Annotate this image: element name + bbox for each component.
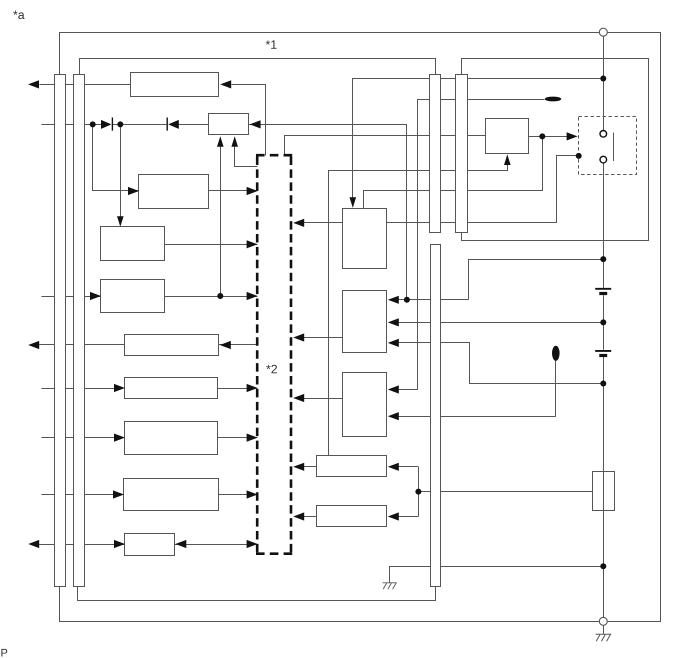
arrow D to *2 xyxy=(247,240,258,248)
label *2 xyxy=(266,365,277,374)
arrow diode box pin2 up xyxy=(231,136,238,147)
wire *2 to diode box pin2 xyxy=(235,147,258,167)
arrow into box K pin2 xyxy=(388,412,399,420)
arrow E to *2 xyxy=(247,292,258,300)
ground symbol bottom xyxy=(596,634,601,641)
wire power rail mid segment xyxy=(603,163,605,288)
node rail y566 xyxy=(600,563,606,569)
wire box B output to *2 xyxy=(304,337,342,339)
box L xyxy=(317,456,387,477)
wire power rail to ground xyxy=(603,625,605,633)
arrow B to *2 xyxy=(293,333,304,341)
node diode row 1 xyxy=(90,121,96,127)
arrow into B1 right xyxy=(220,80,231,88)
arrow M to *2 xyxy=(293,512,304,520)
wire sensor row y99 and down to box K xyxy=(399,100,545,390)
wire diode row to corner and down to node xyxy=(179,125,407,300)
arrow into box J left xyxy=(114,540,125,548)
box B xyxy=(343,291,387,353)
sensor ellipse 1 xyxy=(545,97,561,102)
wire feedback from *2 to B1 xyxy=(232,85,266,156)
arrow into box C xyxy=(128,187,139,195)
terminal circle top xyxy=(599,28,607,36)
arrow into box B pin2 xyxy=(388,318,399,326)
arrow J to *2 xyxy=(247,540,258,548)
connector bus bar 2 xyxy=(74,75,85,587)
resistor R1 xyxy=(593,472,615,511)
wire box I output to *2 xyxy=(218,494,257,496)
label *1 xyxy=(266,40,277,48)
box G xyxy=(125,378,218,399)
arrow into box J right xyxy=(175,540,186,548)
dashed module *2 xyxy=(256,157,259,553)
wire *2 to box F xyxy=(219,344,257,346)
battery 1 short plate xyxy=(599,292,607,295)
box diode logic block xyxy=(209,114,249,135)
node rail y259 xyxy=(600,256,606,262)
box H xyxy=(125,422,218,455)
box I xyxy=(124,479,219,511)
node bracket L-M xyxy=(415,489,421,495)
battery 2 short plate xyxy=(599,354,607,357)
wire sensor2 into box K xyxy=(398,416,555,418)
wire into box M xyxy=(398,516,418,518)
wire control box to switch xyxy=(529,136,568,138)
node rail y383 xyxy=(600,381,606,387)
arrow into box A top xyxy=(350,197,357,208)
label *a xyxy=(13,11,24,20)
arrow K to *2 xyxy=(293,394,304,402)
box A xyxy=(343,209,387,269)
node rail y78 xyxy=(600,76,606,82)
wire box E output to *2 xyxy=(165,296,257,298)
box C xyxy=(139,175,209,209)
terminal circle bottom xyxy=(599,617,607,625)
wire box A output to *2 xyxy=(304,222,342,224)
wire bracket L-M xyxy=(418,467,420,517)
arrow into box K pin1 xyxy=(388,385,399,393)
arrow out left row84 xyxy=(28,80,39,88)
wire power rail upper segment xyxy=(603,36,605,130)
wire box E input stub xyxy=(41,296,100,298)
wire box F output left xyxy=(39,344,125,346)
arrow into box D top xyxy=(117,216,124,227)
module *1 boundary bottom xyxy=(78,587,436,601)
wire sensor2 drop xyxy=(555,361,557,417)
wire row output B1 xyxy=(39,84,131,86)
wire box L output to *2 xyxy=(304,466,317,468)
node under diode line xyxy=(404,297,410,303)
module *1 boundary top xyxy=(80,59,436,75)
connector bus bar 5 xyxy=(431,245,441,587)
sub-module box top right xyxy=(462,59,649,241)
wire box H input stub xyxy=(41,437,114,439)
switch contact circle lower xyxy=(600,156,607,163)
node control output xyxy=(539,133,545,139)
wire power rail between batteries xyxy=(603,295,605,350)
box K xyxy=(343,373,387,437)
wire power rail lower segment xyxy=(603,357,605,617)
wire row into box B pin2 xyxy=(398,322,603,324)
outer boundary frame xyxy=(60,33,661,622)
wire row y190 box A top to node under switch xyxy=(364,137,543,209)
wire diode row stub xyxy=(41,124,101,126)
wire box C output to *2 xyxy=(208,190,257,192)
arrow *2 into box F right xyxy=(220,341,231,349)
wire bracket node to resistor xyxy=(418,491,592,493)
box E xyxy=(101,280,165,313)
box F xyxy=(125,335,219,356)
arrow into switch box xyxy=(567,132,578,140)
arrow into box B pin1 xyxy=(388,296,399,304)
switch contact circle upper xyxy=(600,131,607,138)
wire *2 to control box xyxy=(285,136,486,156)
switch blade bar xyxy=(613,133,615,162)
wire box H output to *2 xyxy=(218,437,258,439)
wire box I input stub xyxy=(41,494,113,496)
wire row into box B pin3 xyxy=(399,343,604,384)
arrow H to *2 xyxy=(247,434,258,442)
wire row y171 to control box and box L xyxy=(329,165,508,456)
arrow into control box bottom xyxy=(504,154,511,165)
wire box J to *2 xyxy=(174,544,257,546)
box control (relay driver) xyxy=(486,119,529,154)
wire box A output to switch node xyxy=(387,156,579,223)
arrow diode box pin1 up xyxy=(217,136,224,147)
dashed switch box xyxy=(579,117,637,175)
wire ground row y566 xyxy=(390,567,604,583)
arrow out left row544 xyxy=(28,540,39,548)
connector bus bar 3 xyxy=(430,75,441,233)
node box E output xyxy=(217,293,223,299)
wire box M output to *2 xyxy=(304,516,317,518)
connector bus bar 4 xyxy=(456,75,468,233)
arrow L to *2 xyxy=(293,463,304,471)
arrow into box B pin3 xyxy=(388,339,399,347)
sensor ellipse 2 xyxy=(552,346,560,361)
arrow out left row345 xyxy=(28,341,39,349)
arrow into diode box right xyxy=(250,120,261,128)
connector bus bar 1 xyxy=(55,75,66,587)
wire node to box C input xyxy=(93,125,139,191)
label P xyxy=(1,649,7,657)
wire rail row y78 to box A arrow xyxy=(353,79,604,199)
wire into box L xyxy=(398,466,418,468)
diode D1 xyxy=(101,120,111,129)
box J xyxy=(125,534,175,556)
node diode row 2 xyxy=(117,121,123,127)
arrow G to *2 xyxy=(247,384,258,392)
arrow C to *2 xyxy=(247,187,258,195)
arrow into box L right xyxy=(388,463,399,471)
wire diode row mid xyxy=(112,124,166,126)
arrow A to *2 xyxy=(293,219,304,227)
battery 2 long plate xyxy=(595,350,611,352)
arrow into box M right xyxy=(388,512,399,520)
wire row into box B pin1 xyxy=(398,299,468,301)
wire box K output to *2 xyxy=(304,398,342,400)
wire box G output to *2 xyxy=(218,388,258,390)
battery 1 long plate xyxy=(595,288,611,290)
box D xyxy=(101,227,165,261)
arrow into box H xyxy=(114,434,125,442)
wire node up to diode box pin1 xyxy=(220,147,222,297)
wire row y259 jog xyxy=(469,260,604,300)
box M xyxy=(317,506,387,527)
wire box G input stub xyxy=(41,388,114,390)
wire box D output to *2 xyxy=(165,244,257,246)
wire node to box D input xyxy=(120,124,122,217)
box B1 top-left block xyxy=(131,73,219,97)
ground symbol left xyxy=(383,583,387,589)
arrow I to *2 xyxy=(247,490,258,498)
wire box J row left xyxy=(39,544,125,546)
diode D2 xyxy=(166,118,168,131)
node rail y322 xyxy=(600,319,606,325)
node on switch box edge xyxy=(576,153,582,159)
arrow into box G xyxy=(114,384,125,392)
arrow into box E xyxy=(90,292,101,300)
arrow into box I xyxy=(113,490,124,498)
